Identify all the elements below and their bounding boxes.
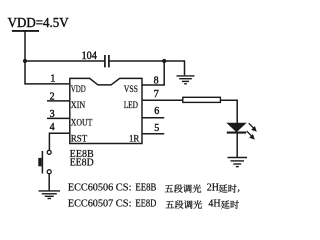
- svg-text:ECC60507: ECC60507: [68, 199, 113, 210]
- switch S1 terminal circle top: [47, 150, 51, 154]
- LED D1 triangle: [227, 123, 245, 132]
- svg-text:3: 3: [50, 109, 55, 120]
- svg-text:EE8D: EE8D: [135, 199, 156, 210]
- svg-text:VDD=4.5V: VDD=4.5V: [8, 15, 69, 30]
- svg-text:104: 104: [82, 50, 98, 62]
- svg-text:EE8D: EE8D: [70, 157, 94, 168]
- wire pin 3 XOUT stub: [47, 117, 70, 119]
- wire pin 5 1R stub: [142, 133, 164, 135]
- svg-text:XOUT: XOUT: [71, 118, 93, 128]
- ground G1 (top right, VSS net): [177, 76, 195, 84]
- svg-text:XIN: XIN: [71, 101, 86, 111]
- wire switch S1 to ground G3: [48, 174, 50, 191]
- svg-text:VSS: VSS: [124, 85, 138, 95]
- LED D1 emission arrow 2: [247, 131, 252, 136]
- wire pin 6 stub: [142, 117, 164, 119]
- note line 2 chinese: 五段调光: [166, 201, 175, 208]
- note line 1 chinese: 延时: [219, 184, 228, 192]
- switch S1 button cap: [38, 158, 41, 166]
- note line 2 chinese: 延时: [221, 200, 230, 208]
- wire pin 4 RST to switch S1: [49, 133, 69, 150]
- resistor R1: [183, 97, 221, 102]
- svg-text:2: 2: [50, 92, 55, 103]
- capacitor C1 plates: [105, 55, 109, 67]
- switch S1 terminal circle bottom: [47, 170, 51, 174]
- ground G3 (below switch S1): [39, 191, 61, 199]
- wire VDD rail down to pin 1: [25, 31, 70, 84]
- node: junction dot at VDD/C1 net: [23, 59, 27, 63]
- wire to capacitor C1 left plate: [25, 60, 104, 62]
- wire resistor R1 to LED D1: [220, 100, 237, 123]
- note line 1 chinese: 五段调光: [165, 185, 174, 192]
- svg-text:1: 1: [50, 73, 55, 84]
- svg-text:CS:: CS:: [116, 183, 132, 194]
- wire VSS net down to pin 8 stub: [142, 61, 164, 85]
- svg-text:8: 8: [154, 76, 159, 87]
- svg-text:6: 6: [154, 106, 159, 117]
- svg-text:VDD: VDD: [71, 85, 86, 95]
- wire capacitor C1 to ground G1: [110, 61, 185, 75]
- svg-text:LED: LED: [124, 101, 138, 111]
- svg-text:4: 4: [50, 122, 55, 133]
- switch S1 actuator plate: [41, 151, 43, 174]
- svg-text:4H: 4H: [208, 199, 220, 210]
- svg-text:1R: 1R: [129, 134, 140, 144]
- svg-text:CS:: CS:: [116, 199, 132, 210]
- svg-text:ECC60506: ECC60506: [68, 183, 113, 194]
- IC U1 body with pin-1 notch: [70, 78, 142, 143]
- LED D1 cathode bar: [227, 132, 246, 134]
- svg-text:,: ,: [237, 183, 240, 194]
- ground G2 (below LED D1): [228, 158, 248, 167]
- svg-text:RST: RST: [71, 134, 88, 144]
- svg-text:EE8B: EE8B: [135, 183, 156, 194]
- svg-text:5: 5: [154, 123, 159, 134]
- node: junction dot at C1/VSS net: [162, 59, 166, 63]
- svg-text:7: 7: [154, 89, 159, 100]
- wire pin 2 XIN stub: [47, 100, 70, 102]
- svg-text:2H: 2H: [207, 183, 219, 194]
- wire pin 7 LED stub: [142, 99, 183, 101]
- power rail VDD bar: [12, 30, 39, 32]
- wire LED D1 to ground G2: [236, 134, 238, 157]
- LED D1 emission arrow 1: [247, 123, 257, 139]
